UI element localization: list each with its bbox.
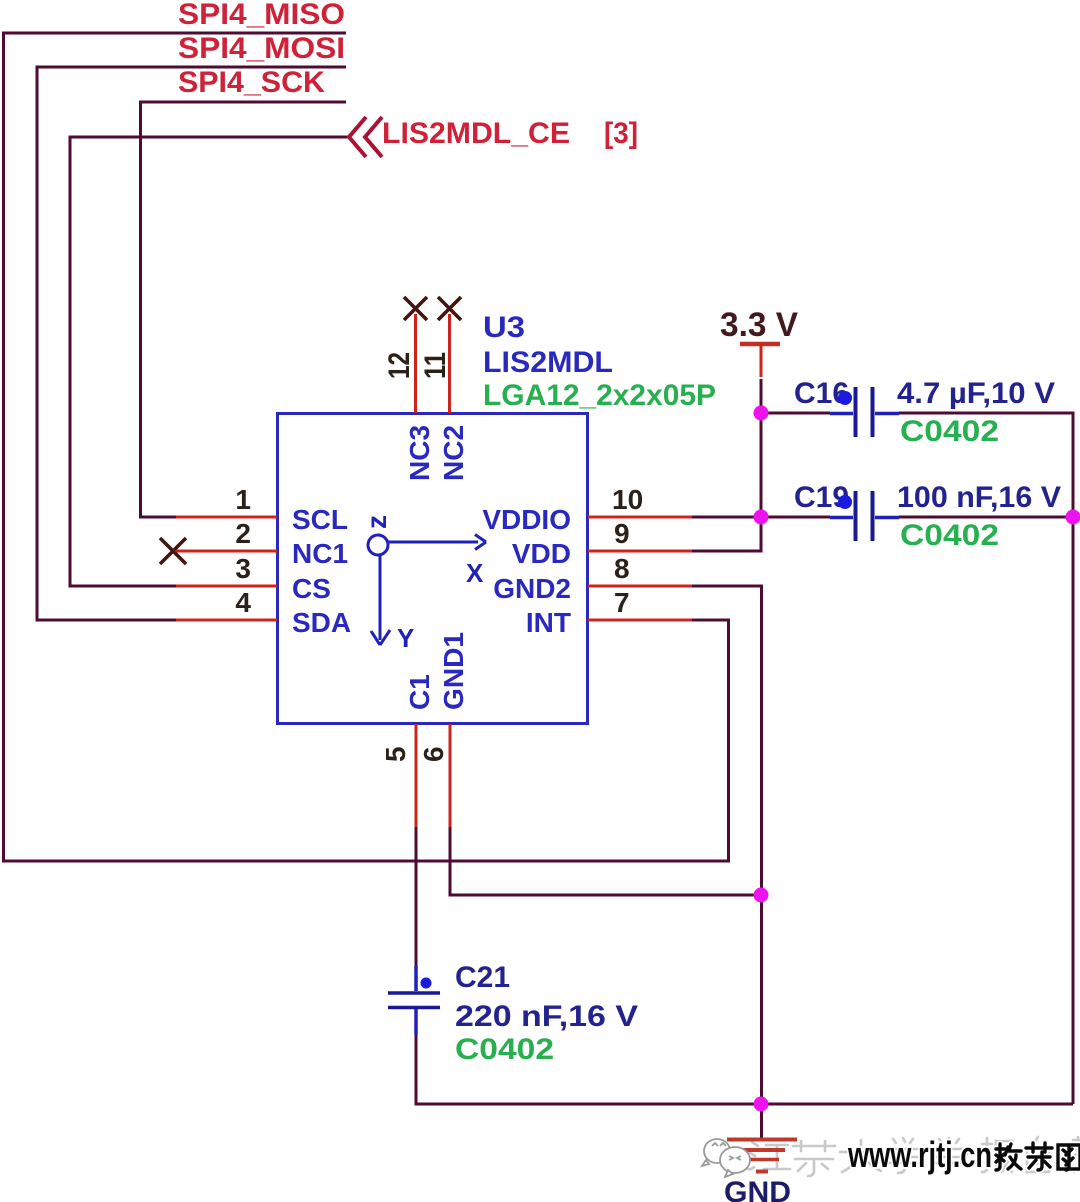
- svg-text:C21: C21: [455, 961, 510, 994]
- sheet-entry chevron for LIS2MDL_CE: [349, 117, 382, 157]
- wire C16 row right: [899, 412, 1075, 415]
- axis X arrow: [388, 535, 486, 550]
- axis glyph Z circle: [368, 535, 388, 555]
- svg-text:3: 3: [235, 553, 251, 584]
- glyph 网: [1058, 1145, 1080, 1170]
- pin 10 VDDIO: [588, 516, 692, 519]
- pin 6 GND1: [449, 724, 452, 827]
- svg-text:z: z: [361, 515, 392, 529]
- glyph 学2: [932, 1138, 970, 1173]
- junction node right rail / C19 row: [1066, 510, 1080, 525]
- no-connect X on pin 11: [438, 297, 461, 320]
- svg-text:C0402: C0402: [455, 1033, 554, 1066]
- junction node at VDDIO / C19 row: [754, 510, 769, 525]
- wire VDDIO pin10 to C19 left: [692, 516, 830, 519]
- svg-text:SDA: SDA: [292, 607, 351, 638]
- svg-text:10: 10: [612, 484, 643, 515]
- pin 7 INT: [588, 619, 692, 622]
- svg-text:11: 11: [419, 352, 452, 379]
- svg-text:9: 9: [614, 518, 630, 549]
- no-connect X on pin 2 NC1: [160, 538, 186, 564]
- svg-text:NC2: NC2: [438, 425, 469, 481]
- wire right vertical rail: [1072, 413, 1075, 1104]
- svg-text:4: 4: [235, 587, 251, 618]
- wire GND1 pin6 route: [450, 827, 761, 895]
- watermark gray chinese characters (vector strokes): [746, 1137, 1080, 1176]
- junction node bottom GND row: [754, 1097, 769, 1112]
- svg-text:CS: CS: [292, 573, 331, 604]
- pin 9 VDD: [588, 550, 692, 553]
- wire SPI4_MOSI to SDA: [37, 67, 346, 620]
- pin 1 SCL: [176, 516, 277, 519]
- wire C19 right to right rail: [899, 516, 1075, 519]
- svg-text:C0402: C0402: [900, 519, 999, 552]
- svg-text:7: 7: [614, 587, 630, 618]
- svg-text:8: 8: [614, 553, 630, 584]
- svg-text:C0402: C0402: [900, 415, 999, 448]
- glyph 软: [996, 1144, 1021, 1170]
- junction node GND1 / GND rail: [754, 888, 769, 903]
- wire C21 bottom to GND row: [416, 1034, 1073, 1104]
- svg-text:4.7 µF,10 V: 4.7 µF,10 V: [897, 377, 1055, 410]
- svg-text:INT: INT: [526, 607, 571, 638]
- svg-text:LGA12_2x2x05P: LGA12_2x2x05P: [483, 379, 716, 412]
- svg-text:100 nF,16 V: 100 nF,16 V: [897, 481, 1061, 514]
- svg-text:3.3 V: 3.3 V: [720, 306, 798, 344]
- wire LIS2MDL_CE to CS: [70, 137, 348, 586]
- watermark wechat logo: [702, 1139, 750, 1177]
- svg-text:220 nF,16 V: 220 nF,16 V: [455, 1000, 638, 1033]
- capacitor C21: [414, 966, 418, 991]
- wire GND2 pin8 down to GND symbol: [692, 586, 762, 1139]
- pin 3 CS: [176, 585, 277, 588]
- svg-text:VDD: VDD: [512, 538, 571, 569]
- junction node at 3.3V / C16 row: [754, 406, 769, 421]
- wire SPI4_SCK to SCL: [141, 102, 347, 517]
- pin 4 SDA: [176, 619, 277, 622]
- glyph 苏: [793, 1141, 835, 1176]
- pin 8 GND2: [588, 585, 692, 588]
- pin 2 NC1: [176, 550, 277, 553]
- watermark black chinese characters (vector strokes): [996, 1143, 1080, 1170]
- junction dot (blue) at C21: [421, 978, 432, 989]
- svg-text:LIS2MDL_CE: LIS2MDL_CE: [382, 117, 570, 150]
- wire C16 row left: [761, 412, 830, 415]
- svg-text:SPI4_MISO: SPI4_MISO: [178, 0, 345, 31]
- glyph 江: [746, 1142, 790, 1169]
- svg-text:C1: C1: [404, 674, 435, 710]
- wire SPI4_MISO to INT (wrap-around net): [4, 33, 729, 861]
- glyph 报: [982, 1138, 1012, 1172]
- svg-text:SPI4_SCK: SPI4_SCK: [178, 66, 325, 99]
- glyph 然: [1071, 1137, 1080, 1172]
- svg-text:1: 1: [235, 484, 251, 515]
- svg-text:GND1: GND1: [438, 632, 469, 710]
- wire VDD pin9 horizontal: [692, 550, 763, 553]
- svg-text:12: 12: [383, 352, 416, 379]
- wire C1 pin5 down to C21: [415, 827, 418, 967]
- svg-text:6: 6: [418, 746, 449, 762]
- glyph 自: [1027, 1137, 1049, 1172]
- axis Y arrow: [371, 554, 390, 645]
- svg-text:Y: Y: [397, 623, 414, 653]
- svg-text:GND: GND: [724, 1176, 791, 1202]
- ground symbol bars: [727, 1138, 797, 1142]
- svg-text:GND2: GND2: [493, 573, 571, 604]
- svg-text:VDDIO: VDDIO: [482, 504, 571, 535]
- svg-text:SCL: SCL: [292, 504, 348, 535]
- svg-text:5: 5: [380, 746, 411, 762]
- capacitor C19: [830, 516, 853, 520]
- svg-text:LIS2MDL: LIS2MDL: [483, 346, 613, 379]
- svg-text:SPI4_MOSI: SPI4_MOSI: [178, 32, 345, 65]
- glyph 荐: [1026, 1143, 1052, 1170]
- svg-text:www.rjtj.cn: www.rjtj.cn: [847, 1134, 992, 1175]
- no-connect X on pin 12: [404, 297, 427, 320]
- glyph 学: [886, 1138, 924, 1173]
- capacitor C16: [830, 412, 853, 416]
- pin 11 NC2: [448, 314, 451, 413]
- pin 12 NC3: [414, 314, 417, 413]
- svg-text:U3: U3: [483, 311, 525, 344]
- glyph 大: [840, 1140, 882, 1172]
- svg-text:NC3: NC3: [404, 425, 435, 481]
- wire 3.3V rail vertical to VDD: [760, 379, 763, 551]
- svg-text:NC1: NC1: [292, 538, 348, 569]
- pin 5 C1: [415, 724, 418, 827]
- svg-text:[3]: [3]: [604, 117, 638, 150]
- svg-text:2: 2: [235, 518, 251, 549]
- op IC body U3: [278, 414, 588, 724]
- svg-text:X: X: [466, 558, 484, 588]
